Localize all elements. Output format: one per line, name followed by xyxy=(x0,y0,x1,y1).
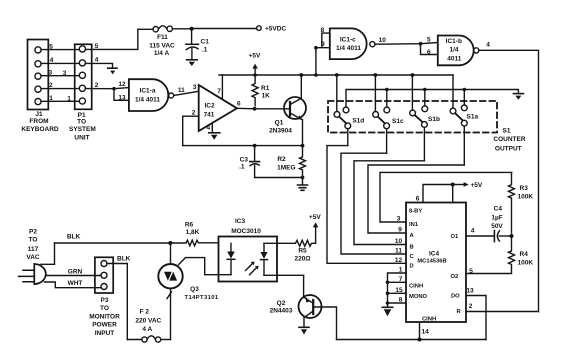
switch S1d xyxy=(334,73,364,146)
svg-text:IC2: IC2 xyxy=(204,103,215,110)
svg-text:MONITOR: MONITOR xyxy=(89,313,120,320)
wire IC1-c inputs (pins 8,9) xyxy=(314,27,330,77)
triac Q3 T14PT3101 xyxy=(158,243,219,340)
svg-text:1/4 4011: 1/4 4011 xyxy=(135,97,160,104)
wire IC1-c out (pin 10) to IC1-b inputs xyxy=(375,37,438,57)
svg-text:S1a: S1a xyxy=(467,113,479,120)
svg-text:3: 3 xyxy=(48,69,52,76)
ground (R2 / C3) xyxy=(298,176,308,191)
svg-text:DO: DO xyxy=(451,293,460,299)
svg-text:100K: 100K xyxy=(518,194,534,201)
svg-text:3: 3 xyxy=(63,70,67,77)
svg-text:100K: 100K xyxy=(518,260,534,267)
wire S1a to IC4 pin 9 xyxy=(368,165,464,233)
wire row 2 xyxy=(41,82,99,89)
svg-text:1: 1 xyxy=(49,95,53,102)
wire P1 pin5 to fuse riser xyxy=(86,29,138,49)
gate IC1-c (1/4 4011) xyxy=(330,28,375,59)
transistor Q1 2N3904 xyxy=(257,73,307,144)
svg-text:P2: P2 xyxy=(29,229,37,236)
svg-text:F 2: F 2 xyxy=(140,309,150,316)
wire C3 bottom to R2 bottom xyxy=(255,177,303,179)
svg-text:741: 741 xyxy=(204,112,215,119)
+5V arrow (R5) xyxy=(309,214,321,243)
svg-text:8-BY: 8-BY xyxy=(409,209,422,215)
svg-text:6: 6 xyxy=(416,195,420,202)
pin labels IC4 left xyxy=(395,216,403,304)
svg-text:1µF: 1µF xyxy=(491,215,502,222)
wire GRN xyxy=(46,269,101,276)
connector J1 xyxy=(21,40,59,134)
svg-text:+5VDC: +5VDC xyxy=(265,26,286,33)
svg-text:9: 9 xyxy=(398,227,402,234)
svg-text:+5V: +5V xyxy=(309,214,321,221)
svg-text:IC1-b: IC1-b xyxy=(446,38,462,45)
svg-text:Q3: Q3 xyxy=(190,286,199,293)
svg-text:11: 11 xyxy=(178,87,185,94)
svg-text:5: 5 xyxy=(427,37,431,44)
ground (op-amp pin 4) xyxy=(209,133,220,140)
wire op-amp output pin 6 xyxy=(237,100,255,109)
svg-text:S1d: S1d xyxy=(352,117,364,124)
wire feedback node line xyxy=(183,144,305,148)
svg-text:12: 12 xyxy=(395,257,403,264)
svg-text:2N3904: 2N3904 xyxy=(269,128,292,135)
wire P1 pin2 to IC1-a inputs xyxy=(86,81,129,101)
svg-text:10: 10 xyxy=(379,37,387,44)
wire row 1 xyxy=(41,95,79,103)
svg-text:WHT: WHT xyxy=(68,280,83,287)
pin 4 wire (op-amp V-) xyxy=(206,123,212,132)
svg-text:SYSTEM: SYSTEM xyxy=(69,126,96,133)
svg-text:BLK: BLK xyxy=(67,234,81,241)
fuse F11 xyxy=(138,26,190,57)
LED inside IC3 xyxy=(227,243,235,274)
svg-text:7: 7 xyxy=(217,88,221,95)
svg-text:4: 4 xyxy=(486,42,490,49)
svg-text:5: 5 xyxy=(49,43,53,50)
svg-text:4: 4 xyxy=(206,124,210,131)
svg-text:.1: .1 xyxy=(202,47,208,54)
svg-text:O2: O2 xyxy=(451,274,459,280)
svg-text:INPUT: INPUT xyxy=(95,330,115,337)
svg-text:C3: C3 xyxy=(240,157,249,164)
svg-text:F11: F11 xyxy=(157,34,168,41)
node (O1/C4/R3/R4) xyxy=(510,234,514,238)
svg-text:6: 6 xyxy=(237,100,241,107)
svg-text:8: 8 xyxy=(320,27,324,34)
svg-text:12: 12 xyxy=(118,81,126,88)
wire P3 hot to fuse F2 xyxy=(107,256,131,340)
pin 7 wire (op-amp V+) xyxy=(217,75,222,99)
wire row 5 (J1-P1) xyxy=(41,43,99,51)
wire CINH (pin 14) / bottom rail xyxy=(337,322,487,342)
svg-text:220 VAC: 220 VAC xyxy=(135,318,161,325)
svg-text:4 A: 4 A xyxy=(142,326,152,333)
svg-text:CINH: CINH xyxy=(409,283,423,289)
wire S1b to IC4 pin 10 xyxy=(354,161,424,245)
svg-text:MC14536B: MC14536B xyxy=(417,258,446,264)
wire DO (pin 13) xyxy=(466,288,486,340)
svg-text:.1: .1 xyxy=(239,164,245,171)
wire BLK line / resistor R6 1.8K xyxy=(55,222,218,246)
svg-text:IN1: IN1 xyxy=(409,222,419,228)
svg-text:UNIT: UNIT xyxy=(74,134,89,141)
ground (IC4 inputs) xyxy=(382,307,392,316)
svg-text:Q2: Q2 xyxy=(277,300,286,307)
gate IC1-b (1/4 4011) xyxy=(438,36,479,66)
svg-text:1/4 4011: 1/4 4011 xyxy=(336,45,361,52)
svg-text:R6: R6 xyxy=(185,222,194,229)
svg-text:10: 10 xyxy=(395,238,403,245)
svg-text:4: 4 xyxy=(471,228,475,235)
svg-text:KEYBOARD: KEYBOARD xyxy=(21,126,59,133)
wire to +5VDC terminal xyxy=(194,26,287,33)
gate IC1-a (1/4 4011) xyxy=(129,79,174,111)
fuse F2 220VAC 4A xyxy=(127,309,170,342)
svg-text:4: 4 xyxy=(95,57,99,64)
svg-text:R4: R4 xyxy=(520,251,529,258)
svg-text:IC1-a: IC1-a xyxy=(140,88,156,95)
IC U2 (IC4 MC14536B) xyxy=(406,203,466,323)
wire row 3 xyxy=(41,69,79,76)
svg-text:14: 14 xyxy=(422,329,430,336)
resistor R3 100K xyxy=(509,172,534,233)
wire IC3 detector to Q2 xyxy=(264,274,304,276)
node (fuse / C1 junction) xyxy=(190,27,194,31)
svg-text:D: D xyxy=(410,263,414,269)
+5V rail xyxy=(219,74,453,76)
svg-text:1,8K: 1,8K xyxy=(186,229,200,236)
photo-detector inside IC3 xyxy=(260,243,267,275)
svg-text:OUTPUT: OUTPUT xyxy=(495,145,522,152)
svg-text:TO: TO xyxy=(29,237,38,244)
wire IC4 pin 6 / +5V node xyxy=(416,182,483,202)
svg-text:R2: R2 xyxy=(277,156,286,163)
transistor Q2 2N4403 xyxy=(270,275,337,339)
wire switch common bus to ground xyxy=(346,88,518,107)
wire S1c to IC4 pin 11 xyxy=(341,153,406,254)
light arrows IC3 xyxy=(246,262,259,275)
+5V arrow (R1 top) xyxy=(249,53,261,75)
svg-text:117: 117 xyxy=(28,246,39,253)
svg-text:1/4 A: 1/4 A xyxy=(154,50,170,57)
svg-text:MONO: MONO xyxy=(409,294,428,300)
svg-text:4011: 4011 xyxy=(447,55,461,62)
svg-text:R5: R5 xyxy=(298,248,307,255)
svg-text:IC3: IC3 xyxy=(235,218,246,225)
wire IC4 pins 1,7,15,8 to ground xyxy=(386,273,406,307)
svg-text:13: 13 xyxy=(118,94,126,101)
ground (P1 pin 4) xyxy=(86,63,118,74)
svg-text:1MEG: 1MEG xyxy=(277,165,295,172)
svg-text:3: 3 xyxy=(193,84,197,91)
wire R3 top to IC4 pin 3 xyxy=(380,172,512,222)
svg-text:2: 2 xyxy=(192,110,196,117)
switch box S1 (dashed) xyxy=(328,101,526,152)
svg-text:5: 5 xyxy=(469,268,473,275)
wire BLK from plug xyxy=(41,243,55,264)
svg-text:C4: C4 xyxy=(494,206,503,213)
switch S1c xyxy=(373,73,404,153)
connector P1 xyxy=(69,44,96,141)
resistor R1 1K xyxy=(252,73,270,106)
wire op-amp pin 2 feedback xyxy=(183,110,199,146)
capacitor C4 1uF 50V xyxy=(491,206,509,242)
svg-text:11: 11 xyxy=(395,248,402,255)
svg-text:1: 1 xyxy=(67,96,71,103)
svg-text:2: 2 xyxy=(95,82,99,89)
resistor R5 220 ohm xyxy=(264,240,315,262)
svg-text:115 VAC: 115 VAC xyxy=(149,42,175,49)
svg-text:13: 13 xyxy=(466,288,474,295)
svg-text:R3: R3 xyxy=(520,185,529,192)
ground (Q2 emitter) xyxy=(299,327,309,334)
ground (switch bus) xyxy=(513,94,523,100)
svg-text:FROM: FROM xyxy=(29,118,48,125)
svg-text:2: 2 xyxy=(469,303,473,310)
svg-text:GRN: GRN xyxy=(68,269,83,276)
capacitor C3 .1 xyxy=(239,147,259,178)
connector P3 xyxy=(89,257,120,337)
svg-text:MOC3010: MOC3010 xyxy=(231,228,261,235)
switch S1b xyxy=(410,73,440,161)
svg-text:50V: 50V xyxy=(491,223,503,230)
capacitor C1 xyxy=(186,31,209,60)
svg-text:3: 3 xyxy=(397,216,401,223)
svg-text:9: 9 xyxy=(321,41,325,48)
node (op-amp out / R1 / Q1 base) xyxy=(253,107,257,111)
svg-text:S1: S1 xyxy=(503,128,511,135)
svg-text:S1c: S1c xyxy=(392,118,404,125)
svg-text:4: 4 xyxy=(50,57,54,64)
svg-text:IC1-c: IC1-c xyxy=(340,37,356,44)
svg-text:6: 6 xyxy=(427,49,431,56)
svg-text:1/4: 1/4 xyxy=(449,47,458,54)
svg-text:P3: P3 xyxy=(101,297,109,304)
svg-text:O1: O1 xyxy=(451,234,460,240)
svg-text:B: B xyxy=(410,245,414,251)
svg-text:+5V: +5V xyxy=(471,182,483,189)
wire IC1-a out to op-amp pin 3 xyxy=(174,84,199,95)
svg-text:2: 2 xyxy=(49,82,53,89)
op-amp U1 (IC2 741) xyxy=(199,85,237,131)
svg-text:2N4403: 2N4403 xyxy=(270,308,293,315)
optocoupler IC3 MOC3010 xyxy=(219,218,278,281)
svg-text:VAC: VAC xyxy=(26,254,40,261)
wire IC1-b out (pin 4) to right-side rail xyxy=(479,42,539,312)
svg-text:COUNTER: COUNTER xyxy=(493,136,525,143)
wire row 4 xyxy=(41,57,99,64)
svg-text:BLK: BLK xyxy=(117,256,131,263)
svg-text:C1: C1 xyxy=(201,39,210,46)
svg-text:R1: R1 xyxy=(261,85,270,92)
svg-text:TO: TO xyxy=(100,305,109,312)
plug P2 (117 VAC) xyxy=(19,229,46,284)
wire WHT xyxy=(45,280,102,288)
svg-text:Q1: Q1 xyxy=(275,119,284,126)
ground (C1) xyxy=(187,60,198,66)
wire R (pin 2) xyxy=(466,303,539,312)
switch S1a xyxy=(450,75,478,165)
svg-text:1K: 1K xyxy=(262,92,271,99)
svg-text:IC4: IC4 xyxy=(429,250,440,257)
svg-text:TO: TO xyxy=(77,118,86,125)
svg-text:T14PT3101: T14PT3101 xyxy=(185,295,219,301)
svg-text:220Ω: 220Ω xyxy=(294,256,310,263)
wire IC3 LED cathode to Q3 gate xyxy=(179,258,231,275)
svg-text:POWER: POWER xyxy=(92,322,117,329)
wire S1d to IC4 pin 12 xyxy=(327,146,406,264)
svg-text:+5V: +5V xyxy=(249,53,261,60)
svg-text:CINH: CINH xyxy=(422,317,436,323)
resistor R2 1MEG xyxy=(277,147,305,178)
resistor R4 100K xyxy=(466,238,533,275)
wire O1 (pin 4) xyxy=(466,228,494,236)
svg-text:S1b: S1b xyxy=(428,116,440,123)
